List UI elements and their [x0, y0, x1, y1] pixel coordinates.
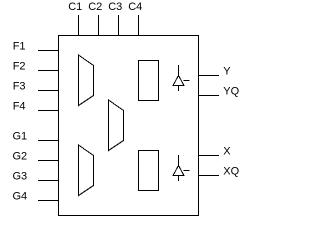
pin C1 [68, 1, 82, 36]
block rectangle (upper) [139, 61, 159, 101]
svg-text:F1: F1 [13, 41, 26, 53]
svg-text:C1: C1 [68, 1, 82, 13]
pin G1 [13, 131, 59, 143]
pin XQ [199, 166, 240, 178]
svg-text:C2: C2 [88, 1, 102, 13]
pin C3 [108, 1, 122, 36]
svg-text:Y: Y [223, 66, 231, 78]
pin X [199, 146, 232, 158]
block rectangle (lower) [139, 151, 159, 191]
svg-text:C3: C3 [108, 1, 122, 13]
pin F2 [13, 61, 59, 73]
mux trapezoid (F inputs) [79, 55, 94, 106]
pin F3 [13, 81, 59, 93]
pin G2 [13, 151, 59, 163]
mux trapezoid (control, middle) [109, 100, 124, 151]
svg-text:G3: G3 [13, 171, 28, 183]
pin Y [199, 66, 232, 78]
svg-text:G4: G4 [13, 191, 28, 203]
pin F1 [13, 41, 59, 53]
svg-text:C4: C4 [128, 1, 142, 13]
buffer symbol (X output) [173, 155, 190, 181]
svg-text:F2: F2 [13, 61, 26, 73]
svg-text:YQ: YQ [223, 86, 239, 98]
svg-text:X: X [223, 146, 231, 158]
svg-text:XQ: XQ [223, 166, 239, 178]
svg-text:G2: G2 [13, 151, 28, 163]
pin G4 [13, 191, 59, 203]
mux trapezoid (G inputs) [79, 145, 94, 196]
svg-text:F4: F4 [13, 101, 26, 113]
svg-text:G1: G1 [13, 131, 28, 143]
buffer symbol (Y output) [173, 65, 190, 91]
pin C4 [128, 1, 142, 36]
pin C2 [88, 1, 102, 36]
svg-text:F3: F3 [13, 81, 26, 93]
pin YQ [199, 86, 240, 98]
component body U1 [59, 36, 199, 216]
pin G3 [13, 171, 59, 183]
pin F4 [13, 101, 59, 113]
